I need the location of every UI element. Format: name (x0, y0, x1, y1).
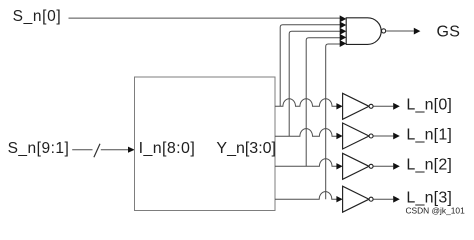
inverter U3 bubble (369, 104, 373, 108)
op NAND gate U2 body (346, 18, 381, 45)
arrowhead L_n[3] (393, 196, 400, 203)
bus width slash (94, 144, 100, 158)
inverter U4 bubble (369, 134, 373, 138)
wire vertical branch Y_n[1] to NAND input 3 (289, 31, 340, 136)
arrowhead GS (414, 28, 421, 35)
NAND inverted input triangle pin 4 (340, 34, 347, 41)
wire S_n[9:1] bus to box (72, 149, 128, 151)
inverter U5 triangle (343, 153, 369, 179)
arrowhead L_n[1] (393, 133, 400, 140)
inverter U6 triangle (343, 186, 369, 212)
inverter U5 bubble (369, 164, 373, 168)
svg-text:S_n[0]: S_n[0] (13, 8, 62, 25)
wire S_n[0] to NAND input 1 (69, 17, 341, 19)
arrowhead into inverter U3 (336, 103, 342, 109)
wire vertical branch Y_n[3] to NAND input 5 (326, 44, 340, 199)
wire inverter U5 output (373, 165, 393, 167)
svg-text:I_n[8:0]: I_n[8:0] (139, 140, 196, 157)
wire NAND output to GS (386, 30, 414, 32)
NAND inverted input triangle pin 2 (340, 22, 347, 29)
arrowhead L_n[0] (393, 103, 400, 110)
svg-text:GS: GS (437, 24, 461, 41)
NAND inverted input triangle pin 3 (340, 28, 347, 35)
module U1 priority encoder box (135, 77, 276, 211)
svg-text:L_n[0]: L_n[0] (406, 97, 452, 114)
svg-text:CSDN @jk_101: CSDN @jk_101 (406, 206, 466, 216)
wire inverter U6 output (373, 198, 393, 200)
svg-text:S_n[9:1]: S_n[9:1] (8, 140, 70, 157)
inverter U3 triangle (343, 93, 369, 119)
arrowhead into inverter U5 (336, 163, 342, 169)
arrowhead L_n[2] (393, 163, 400, 170)
arrowhead into inverter U6 (336, 196, 342, 202)
wire inverter U4 output (373, 135, 393, 137)
wire Y_n[1] box to inverter U4 with hops (275, 129, 337, 137)
arrowhead into I_n pin (128, 147, 135, 153)
arrowhead into inverter U4 (336, 133, 342, 139)
inverter U4 triangle (343, 123, 369, 149)
svg-text:Y_n[3:0]: Y_n[3:0] (216, 140, 276, 157)
inverter U6 bubble (369, 197, 373, 201)
wire Y_n[0] box to inverter U3 with hops (275, 99, 337, 107)
NAND output bubble (382, 29, 386, 33)
svg-text:L_n[3]: L_n[3] (406, 190, 452, 207)
wire Y_n[2] box to inverter U5 with hop (275, 159, 337, 167)
wire vertical branch Y_n[2] to NAND input 4 (306, 38, 340, 167)
NAND inverted input triangle pin 1 (340, 15, 347, 22)
svg-text:L_n[2]: L_n[2] (406, 157, 452, 174)
wire Y_n[3] box to inverter U6 with hop (275, 192, 337, 200)
svg-text:L_n[1]: L_n[1] (406, 126, 452, 143)
wire inverter U3 output (373, 105, 393, 107)
wire vertical branch Y_n[0] to NAND input 2 (280, 25, 340, 107)
NAND inverted input triangle pin 5 (340, 40, 347, 47)
